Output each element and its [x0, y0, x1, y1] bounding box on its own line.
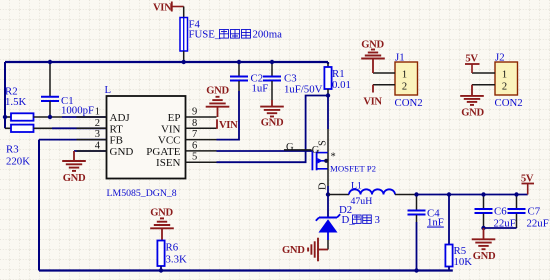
- pin 9 EP: [186, 107, 217, 118]
- junction C3 top rail: [270, 60, 274, 64]
- svg-text:MOSFET P2: MOSFET P2: [330, 164, 376, 174]
- connector J1: [395, 52, 423, 110]
- svg-text:ADJ: ADJ: [110, 112, 131, 124]
- svg-text:200ma: 200ma: [253, 29, 283, 41]
- svg-text:RT: RT: [110, 123, 124, 135]
- svg-text:3.3K: 3.3K: [166, 254, 187, 266]
- resistor R6: [157, 241, 187, 271]
- op-amp U1 : IC LM5085 box: [105, 84, 186, 199]
- capacitor C1: [41, 62, 94, 117]
- svg-text:1: 1: [502, 70, 507, 81]
- junction R1 bottom node: [326, 93, 330, 97]
- wire R3 to RT: [34, 127, 53, 129]
- svg-text:220K: 220K: [6, 156, 30, 168]
- svg-text:VIN: VIN: [161, 123, 181, 135]
- svg-text:47uH: 47uH: [351, 196, 373, 207]
- junction R2 left: [3, 115, 7, 119]
- pin 4 GND: [77, 141, 107, 152]
- svg-text:C6: C6: [494, 206, 507, 218]
- junction C7 top: [514, 192, 518, 196]
- svg-text:FUSE_: FUSE_: [189, 29, 221, 41]
- svg-text:GND: GND: [261, 118, 284, 129]
- svg-text:1000pF: 1000pF: [61, 105, 94, 117]
- pin 8 VIN: [186, 118, 217, 129]
- capacitor C6: [475, 195, 516, 230]
- wire ISEN sense branch: [217, 96, 329, 163]
- pin 2 RT: [77, 118, 107, 129]
- svg-text:D_: D_: [342, 214, 356, 226]
- svg-text:1uF/50V: 1uF/50V: [284, 84, 323, 96]
- junction SW node: [326, 192, 330, 196]
- junction C6 top: [481, 192, 485, 196]
- ground R6 GND inverted: [150, 208, 174, 241]
- svg-text:EP: EP: [168, 112, 181, 124]
- svg-text:R6: R6: [166, 242, 179, 254]
- svg-text:2: 2: [402, 82, 407, 93]
- svg-text:7: 7: [192, 129, 197, 140]
- resistor R3: [5, 125, 34, 168]
- wire fuse to top rail: [183, 51, 185, 62]
- transistor Q1 MOSFET P2: [284, 129, 376, 190]
- wire C6-C7 bottoms: [484, 227, 517, 229]
- svg-text:GND: GND: [473, 251, 496, 262]
- svg-text:1: 1: [402, 70, 407, 81]
- svg-text:VCC: VCC: [158, 135, 181, 147]
- pin J1-2: [373, 84, 395, 86]
- svg-text:1nF: 1nF: [427, 217, 444, 229]
- svg-text:LM5085_DGN_8: LM5085_DGN_8: [107, 188, 177, 199]
- svg-text:6: 6: [192, 140, 197, 151]
- svg-text:GND: GND: [282, 245, 305, 256]
- wire source from R1: [327, 96, 329, 130]
- junction R5 top: [447, 192, 451, 196]
- junction C4 bottom: [414, 268, 418, 272]
- ground pin4 GND: [62, 151, 86, 184]
- resistor R1: [324, 62, 351, 96]
- pin J1-1: [373, 72, 395, 74]
- junction C2 top rail: [237, 60, 241, 64]
- svg-text:GND: GND: [63, 173, 86, 184]
- pin J2-2: [472, 84, 495, 86]
- svg-text:3: 3: [95, 129, 100, 140]
- svg-text:G: G: [312, 145, 320, 156]
- junction fuse/top rail: [182, 60, 186, 64]
- pin 3 FB: [77, 129, 107, 140]
- svg-text:8: 8: [192, 118, 197, 129]
- pin 7 VCC: [186, 129, 217, 140]
- ground EP GND (inverted above pin 9): [206, 86, 230, 118]
- svg-text:L: L: [105, 84, 112, 96]
- capacitor C2: [230, 62, 268, 95]
- resistor R2: [5, 86, 34, 121]
- wire FB net: pin3 left and down to bottom rail: [39, 139, 107, 141]
- pin 6 PGATE: [186, 140, 217, 151]
- svg-text:5: 5: [192, 152, 197, 163]
- node VIN top power port: [153, 2, 184, 14]
- svg-text:D: D: [318, 182, 329, 190]
- svg-text:10K: 10K: [454, 256, 473, 268]
- svg-text:J2: J2: [495, 52, 505, 64]
- pin 5 ISEN: [186, 152, 217, 163]
- node VIN at J1-2: [363, 85, 382, 108]
- svg-text:G: G: [286, 142, 294, 153]
- ground C6/C7 GND: [472, 228, 496, 262]
- svg-text:1uF: 1uF: [252, 83, 269, 95]
- wire SW to L1: [328, 194, 349, 196]
- wire drain to node: [327, 186, 329, 195]
- junction C6 bottom: [481, 226, 485, 230]
- svg-text:2: 2: [95, 118, 100, 129]
- svg-text:CON2: CON2: [395, 97, 423, 109]
- junction C1/R2/ADJ: [48, 115, 52, 119]
- svg-text:2: 2: [502, 82, 507, 93]
- svg-text:1: 1: [95, 107, 100, 118]
- svg-text:L1: L1: [351, 181, 362, 192]
- node 5V output port: [521, 174, 534, 195]
- svg-text:GND: GND: [461, 107, 484, 118]
- inductor L1: [349, 181, 395, 208]
- svg-text:3: 3: [375, 214, 380, 226]
- svg-text:*: *: [331, 152, 336, 163]
- ground J2 GND: [460, 85, 484, 119]
- resistor R5: [445, 195, 472, 271]
- svg-text:J1: J1: [395, 52, 405, 64]
- svg-text:4: 4: [95, 141, 101, 152]
- junction C1 top rail: [48, 60, 52, 64]
- svg-text:GND: GND: [150, 208, 173, 219]
- svg-text:ISEN: ISEN: [156, 157, 181, 169]
- svg-text:PGATE: PGATE: [146, 146, 181, 158]
- svg-text:22uF: 22uF: [527, 218, 549, 230]
- svg-text:0.01: 0.01: [332, 79, 351, 91]
- ground D2 GND rotated: [282, 238, 328, 262]
- ground J1 GND inverted: [361, 40, 385, 74]
- ground C3 GND: [260, 107, 284, 129]
- connector J2: [495, 52, 523, 110]
- node 5V at J2-1: [465, 54, 480, 74]
- wire C2 to VCC pin7: [217, 91, 240, 140]
- svg-text:VIN: VIN: [153, 3, 172, 14]
- svg-text:9: 9: [192, 107, 197, 118]
- wire left riser: [4, 62, 6, 128]
- wire R2 to C1/ADJ: [34, 116, 63, 118]
- svg-text:R3: R3: [6, 144, 19, 156]
- wire VIN to fuse: [183, 7, 185, 18]
- fuse F4: [180, 18, 282, 52]
- junction R6 bottom: [159, 268, 163, 272]
- wire PGATE to gate: [217, 150, 313, 152]
- svg-text:1.5K: 1.5K: [5, 96, 26, 108]
- svg-text:FB: FB: [110, 135, 123, 147]
- svg-text:5V: 5V: [465, 54, 478, 65]
- pin 1 ADJ: [77, 107, 107, 118]
- wire top rail: [5, 61, 328, 63]
- svg-text:CON2: CON2: [495, 97, 523, 109]
- svg-text:C7: C7: [528, 206, 541, 218]
- capacitor C7: [508, 195, 549, 230]
- capacitor C4: [408, 195, 444, 271]
- svg-text:GND: GND: [110, 146, 134, 158]
- pin J2-1: [472, 72, 495, 74]
- wire GND pin4: [74, 150, 107, 152]
- svg-text:VIN: VIN: [363, 97, 382, 108]
- svg-text:GND: GND: [206, 86, 229, 97]
- diode D2 zener: [316, 195, 380, 250]
- wire bottom rail: [39, 269, 453, 271]
- node VIN at pin 8: [217, 119, 238, 131]
- capacitor C3: [263, 62, 323, 107]
- junction C4 top: [414, 192, 418, 196]
- svg-text:VIN: VIN: [219, 120, 238, 131]
- wire output rail: [395, 194, 417, 196]
